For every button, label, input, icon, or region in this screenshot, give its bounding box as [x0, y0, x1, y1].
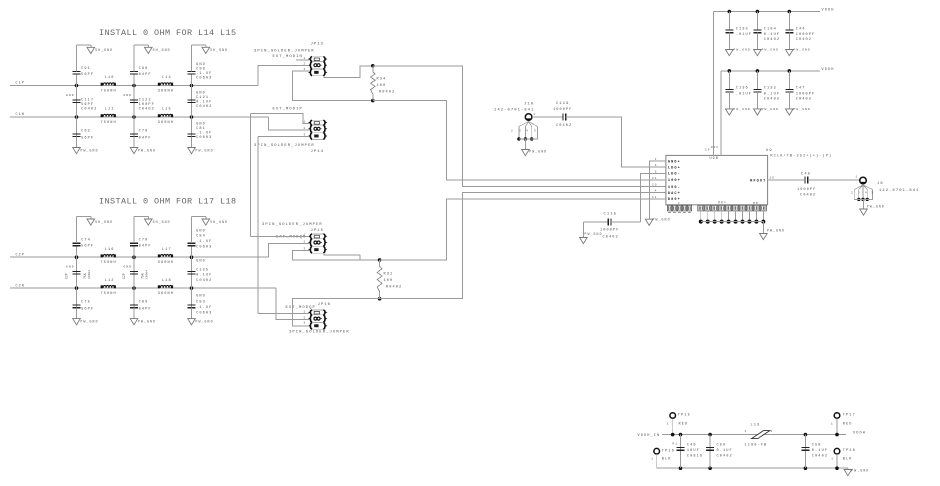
svg-text:0.1UF: 0.1UF [196, 101, 212, 105]
svg-text:C79: C79 [139, 239, 149, 243]
svg-text:C0402: C0402 [796, 97, 812, 101]
svg-text:PW_GND: PW_GND [762, 108, 779, 111]
svg-text:GND: GND [66, 265, 75, 268]
svg-text:75K: 75K [83, 273, 87, 279]
svg-text:SH_GND: SH_GND [153, 48, 171, 52]
svg-text:GND: GND [124, 265, 133, 268]
svg-text:C47: C47 [796, 87, 806, 91]
svg-text:VDDH: VDDH [822, 68, 835, 72]
svg-text:GND: GND [196, 295, 206, 299]
svg-text:SH_GND: SH_GND [95, 220, 113, 224]
svg-text:5: 5 [534, 130, 537, 133]
svg-text:C74: C74 [81, 239, 91, 243]
svg-text:0.1UF: 0.1UF [717, 449, 733, 453]
svg-text:C136: C136 [736, 87, 749, 91]
svg-text:1: 1 [534, 113, 537, 116]
svg-text:U9B: U9B [710, 157, 719, 161]
svg-text:1000PF: 1000PF [796, 92, 816, 96]
svg-text:JP16: JP16 [318, 303, 332, 307]
svg-text:PW_GND: PW_GND [81, 320, 99, 324]
svg-text:GND: GND [66, 94, 75, 97]
svg-text:INSTALL 0 OHM FOR L14 L15: INSTALL 0 OHM FOR L14 L15 [99, 28, 237, 38]
svg-text:C0603: C0603 [196, 246, 212, 250]
svg-text:29: 29 [705, 149, 711, 152]
svg-text:VDDH: VDDH [853, 432, 866, 436]
svg-text:C45: C45 [801, 173, 811, 177]
svg-text:C0402: C0402 [812, 454, 828, 458]
svg-text:4: 4 [655, 164, 658, 167]
svg-text:75K: 75K [141, 273, 145, 279]
svg-text:1: 1 [667, 422, 670, 425]
svg-text:56PF: 56PF [81, 245, 94, 249]
svg-text:L17: L17 [162, 248, 172, 252]
svg-text:3: 3 [858, 192, 861, 195]
svg-text:2: 2 [304, 127, 307, 130]
svg-text:1: 1 [304, 121, 307, 124]
svg-text:U9: U9 [766, 149, 773, 153]
svg-text:C122: C122 [139, 99, 152, 103]
svg-text:C104: C104 [764, 27, 777, 31]
svg-text:360NH: 360NH [158, 90, 174, 94]
svg-text:C0402: C0402 [603, 236, 619, 240]
svg-text:C0604: C0604 [88, 270, 91, 279]
svg-text:C50: C50 [717, 443, 727, 447]
svg-text:GND: GND [124, 94, 133, 97]
svg-text:RCLK/TB-252+(+)-(P): RCLK/TB-252+(+)-(P) [770, 154, 832, 159]
svg-text:PW_GND: PW_GND [138, 320, 156, 324]
svg-text:56PF: 56PF [81, 308, 94, 312]
svg-text:56PF: 56PF [81, 137, 94, 141]
svg-text:L12: L12 [105, 279, 115, 283]
svg-text:RED: RED [843, 422, 853, 426]
svg-text:L13: L13 [751, 424, 761, 428]
svg-text:11: 11 [652, 196, 658, 199]
svg-text:1: 1 [831, 422, 834, 425]
svg-text:C135: C135 [736, 27, 749, 31]
svg-text:750NH: 750NH [101, 292, 117, 296]
svg-text:SH_GND: SH_GND [95, 48, 113, 52]
svg-text:C0402: C0402 [81, 108, 97, 112]
svg-text:VDDH: VDDH [822, 9, 835, 13]
svg-text:P1: P1 [673, 443, 679, 446]
svg-text:JP13: JP13 [311, 43, 325, 47]
svg-text:3PIN_SOLDER_JUMPER: 3PIN_SOLDER_JUMPER [289, 331, 350, 335]
svg-text:750NH: 750NH [101, 90, 117, 94]
svg-text:C79: C79 [139, 130, 149, 134]
svg-text:1: 1 [304, 57, 307, 60]
svg-text:PW_GND: PW_GND [794, 108, 811, 111]
svg-text:360NH: 360NH [158, 292, 174, 296]
svg-text:PW_GND: PW_GND [138, 149, 156, 153]
svg-text:PW_GND: PW_GND [867, 205, 885, 209]
svg-text:INSTALL 0 OHM FOR L17 L18: INSTALL 0 OHM FOR L17 L18 [99, 197, 237, 207]
svg-text:C81: C81 [196, 127, 206, 131]
svg-text:2: 2 [511, 130, 514, 133]
svg-text:PW_GND: PW_GND [762, 49, 779, 52]
svg-text:1000PF: 1000PF [797, 188, 817, 192]
svg-text:3: 3 [304, 68, 307, 71]
svg-text:1: 1 [304, 310, 307, 313]
svg-text:EXT_MODQP: EXT_MODQP [286, 306, 316, 310]
svg-text:360NH: 360NH [158, 121, 174, 125]
svg-text:C132: C132 [764, 87, 777, 91]
svg-text:C125: C125 [196, 269, 209, 273]
svg-text:100: 100 [377, 84, 387, 88]
svg-text:C2P: C2P [16, 253, 25, 257]
svg-text:BLK: BLK [662, 458, 672, 462]
svg-text:R34: R34 [377, 78, 387, 82]
svg-text:750NH: 750NH [101, 261, 117, 265]
svg-text:C117: C117 [81, 99, 94, 103]
svg-text:1: 1 [856, 176, 859, 179]
svg-text:PW_GND: PW_GND [851, 469, 869, 473]
svg-text:C0402: C0402 [556, 124, 572, 128]
svg-text:84PF: 84PF [139, 308, 152, 312]
svg-text:C58: C58 [812, 443, 822, 447]
svg-text:C84: C84 [196, 235, 206, 239]
svg-text:1000PF: 1000PF [600, 229, 620, 233]
svg-text:C0603: C0603 [196, 136, 212, 140]
svg-text:C0402: C0402 [764, 97, 780, 101]
svg-text:56PF: 56PF [81, 103, 94, 107]
svg-text:142-0701-841: 142-0701-841 [494, 109, 535, 113]
svg-text:C0402: C0402 [139, 108, 155, 112]
svg-text:TP17: TP17 [843, 414, 856, 418]
svg-text:21: 21 [652, 177, 658, 180]
svg-text:PW_GND: PW_GND [734, 49, 751, 52]
svg-text:LDO+: LDO+ [668, 166, 681, 170]
svg-text:C80: C80 [139, 301, 149, 305]
svg-text:J10: J10 [524, 103, 534, 107]
svg-text:C0816: C0816 [687, 454, 703, 458]
svg-text:1000PF: 1000PF [553, 108, 573, 112]
svg-text:C0603: C0603 [196, 76, 212, 80]
svg-text:PW_GND: PW_GND [794, 49, 811, 52]
svg-text:L14: L14 [162, 76, 172, 80]
svg-text:4: 4 [865, 192, 868, 195]
svg-text:PW_GND: PW_GND [196, 320, 214, 324]
svg-text:84PF: 84PF [139, 73, 152, 77]
svg-text:.1.UF: .1.UF [196, 72, 212, 76]
svg-text:C75: C75 [81, 301, 91, 305]
svg-text:C119: C119 [556, 102, 570, 106]
svg-text:3PIN_SOLDER_JUMPER: 3PIN_SOLDER_JUMPER [254, 144, 315, 148]
svg-text:SH_GND: SH_GND [210, 48, 228, 52]
svg-text:TP16: TP16 [662, 450, 675, 454]
svg-text:1: 1 [745, 430, 748, 433]
svg-text:RED: RED [679, 422, 689, 426]
svg-text:GND: GND [196, 260, 206, 264]
svg-text:L11: L11 [105, 108, 115, 112]
svg-text:2: 2 [304, 63, 307, 66]
svg-text:1000PF: 1000PF [796, 33, 816, 37]
svg-text:PW_GND: PW_GND [767, 229, 785, 233]
svg-text:R0402: R0402 [379, 91, 395, 95]
svg-text:PW_GND: PW_GND [81, 149, 99, 153]
svg-text:142-0701-841: 142-0701-841 [879, 189, 920, 193]
svg-text:1: 1 [304, 234, 307, 237]
svg-text:C115: C115 [604, 213, 618, 217]
svg-text:100-: 100- [668, 186, 681, 190]
svg-text:TP18: TP18 [843, 449, 856, 453]
svg-text:10UF: 10UF [687, 449, 700, 453]
svg-text:0.1UF: 0.1UF [196, 274, 212, 278]
svg-text:GND: GND [196, 123, 206, 127]
svg-text:L10: L10 [105, 76, 115, 80]
svg-text:OO+: OO+ [718, 201, 727, 205]
svg-text:C44: C44 [796, 27, 806, 31]
svg-text:GND: GND [196, 230, 206, 234]
svg-text:100PF: 100PF [139, 103, 155, 107]
svg-text:20: 20 [652, 184, 658, 187]
svg-text:PW_GND: PW_GND [734, 108, 751, 111]
svg-text:DAC+: DAC+ [668, 192, 681, 196]
svg-text:3PIN_SOLDER_JUMPER: 3PIN_SOLDER_JUMPER [262, 223, 323, 227]
svg-text:1100-FB: 1100-FB [745, 443, 768, 447]
svg-text:PW_GND: PW_GND [585, 232, 603, 236]
svg-text:3: 3 [304, 247, 307, 250]
svg-text:0.1UF: 0.1UF [764, 92, 780, 96]
svg-text:SH_GND: SH_GND [210, 220, 228, 224]
svg-text:EXT_MODIN: EXT_MODIN [273, 55, 303, 59]
svg-text:3: 3 [304, 134, 307, 137]
svg-text:GND: GND [196, 92, 206, 96]
svg-text:C0402: C0402 [796, 38, 812, 42]
svg-text:5: 5 [872, 192, 875, 195]
svg-text:TP15: TP15 [678, 414, 691, 418]
svg-text:C0604: C0604 [146, 270, 149, 279]
svg-text:.1.UF: .1.UF [196, 306, 212, 310]
svg-text:JP15: JP15 [311, 229, 325, 233]
svg-text:3PIN_SOLDER_JUMPER: 3PIN_SOLDER_JUMPER [254, 50, 315, 54]
svg-text:C2P: C2P [65, 273, 69, 279]
svg-text:JP14: JP14 [311, 150, 325, 154]
svg-text:C2N: C2N [16, 284, 25, 288]
svg-text:C0603: C0603 [196, 312, 212, 316]
svg-text:RFOUT: RFOUT [750, 179, 766, 183]
svg-text:0.1UF: 0.1UF [812, 449, 828, 453]
svg-text:4: 4 [526, 130, 529, 133]
svg-text:.1.UF: .1.UF [196, 240, 212, 244]
svg-text:PW_GND: PW_GND [653, 218, 671, 222]
svg-text:.01UF: .01UF [736, 33, 752, 37]
svg-text:3: 3 [304, 322, 307, 325]
svg-text:C1N: C1N [16, 113, 25, 117]
svg-text:750NH: 750NH [101, 121, 117, 125]
svg-text:C: C [678, 202, 681, 205]
svg-text:56PF: 56PF [81, 73, 94, 77]
svg-text:C91: C91 [81, 67, 91, 71]
svg-text:R2C: R2C [711, 146, 719, 149]
svg-text:C98: C98 [196, 67, 206, 71]
svg-text:SH_GND: SH_GND [153, 220, 171, 224]
svg-text:C0402: C0402 [196, 105, 212, 109]
svg-text:LDO-: LDO- [668, 173, 681, 177]
svg-text:C1P: C1P [16, 82, 25, 86]
svg-text:100+: 100+ [668, 179, 681, 183]
svg-text:R0402: R0402 [386, 286, 402, 290]
svg-text:C121: C121 [196, 96, 209, 100]
svg-text:84PF: 84PF [139, 137, 152, 141]
svg-text:L16: L16 [105, 248, 115, 252]
svg-text:C0402: C0402 [800, 194, 816, 198]
svg-text:C0402: C0402 [717, 454, 733, 458]
svg-text:J6: J6 [877, 182, 884, 186]
svg-text:.01UF: .01UF [736, 92, 752, 96]
svg-text:4: 4 [655, 190, 658, 193]
svg-text:16: 16 [770, 177, 776, 180]
svg-text:2: 2 [304, 241, 307, 244]
svg-text:C0402: C0402 [764, 38, 780, 42]
svg-text:MD: MD [753, 202, 759, 205]
svg-text:VDDH_IN: VDDH_IN [638, 434, 661, 438]
svg-text:.1.UF: .1.UF [196, 132, 212, 136]
svg-text:2: 2 [304, 317, 307, 320]
svg-text:L18: L18 [162, 279, 172, 283]
svg-text:C83: C83 [196, 301, 206, 305]
svg-text:3: 3 [519, 130, 522, 133]
svg-text:BLK: BLK [843, 457, 853, 461]
svg-text:1: 1 [831, 458, 834, 461]
svg-text:C0402: C0402 [196, 279, 212, 283]
svg-text:PW_GND: PW_GND [196, 149, 214, 153]
svg-text:C92: C92 [81, 130, 91, 134]
svg-text:C96: C96 [139, 67, 149, 71]
svg-text:PW_GND: PW_GND [529, 150, 547, 154]
svg-text:1: 1 [651, 458, 654, 461]
svg-text:C2P: C2P [122, 273, 126, 279]
svg-text:L15: L15 [162, 108, 172, 112]
svg-text:100: 100 [384, 279, 394, 283]
svg-text:GND+: GND+ [668, 160, 681, 164]
svg-text:360NH: 360NH [158, 261, 174, 265]
svg-text:EXT_MODIP: EXT_MODIP [273, 108, 303, 112]
svg-text:84PF: 84PF [139, 245, 152, 249]
svg-text:0.1UF: 0.1UF [764, 33, 780, 37]
svg-text:2: 2 [851, 192, 854, 195]
svg-text:R31: R31 [384, 273, 394, 277]
svg-text:C49: C49 [687, 443, 697, 447]
